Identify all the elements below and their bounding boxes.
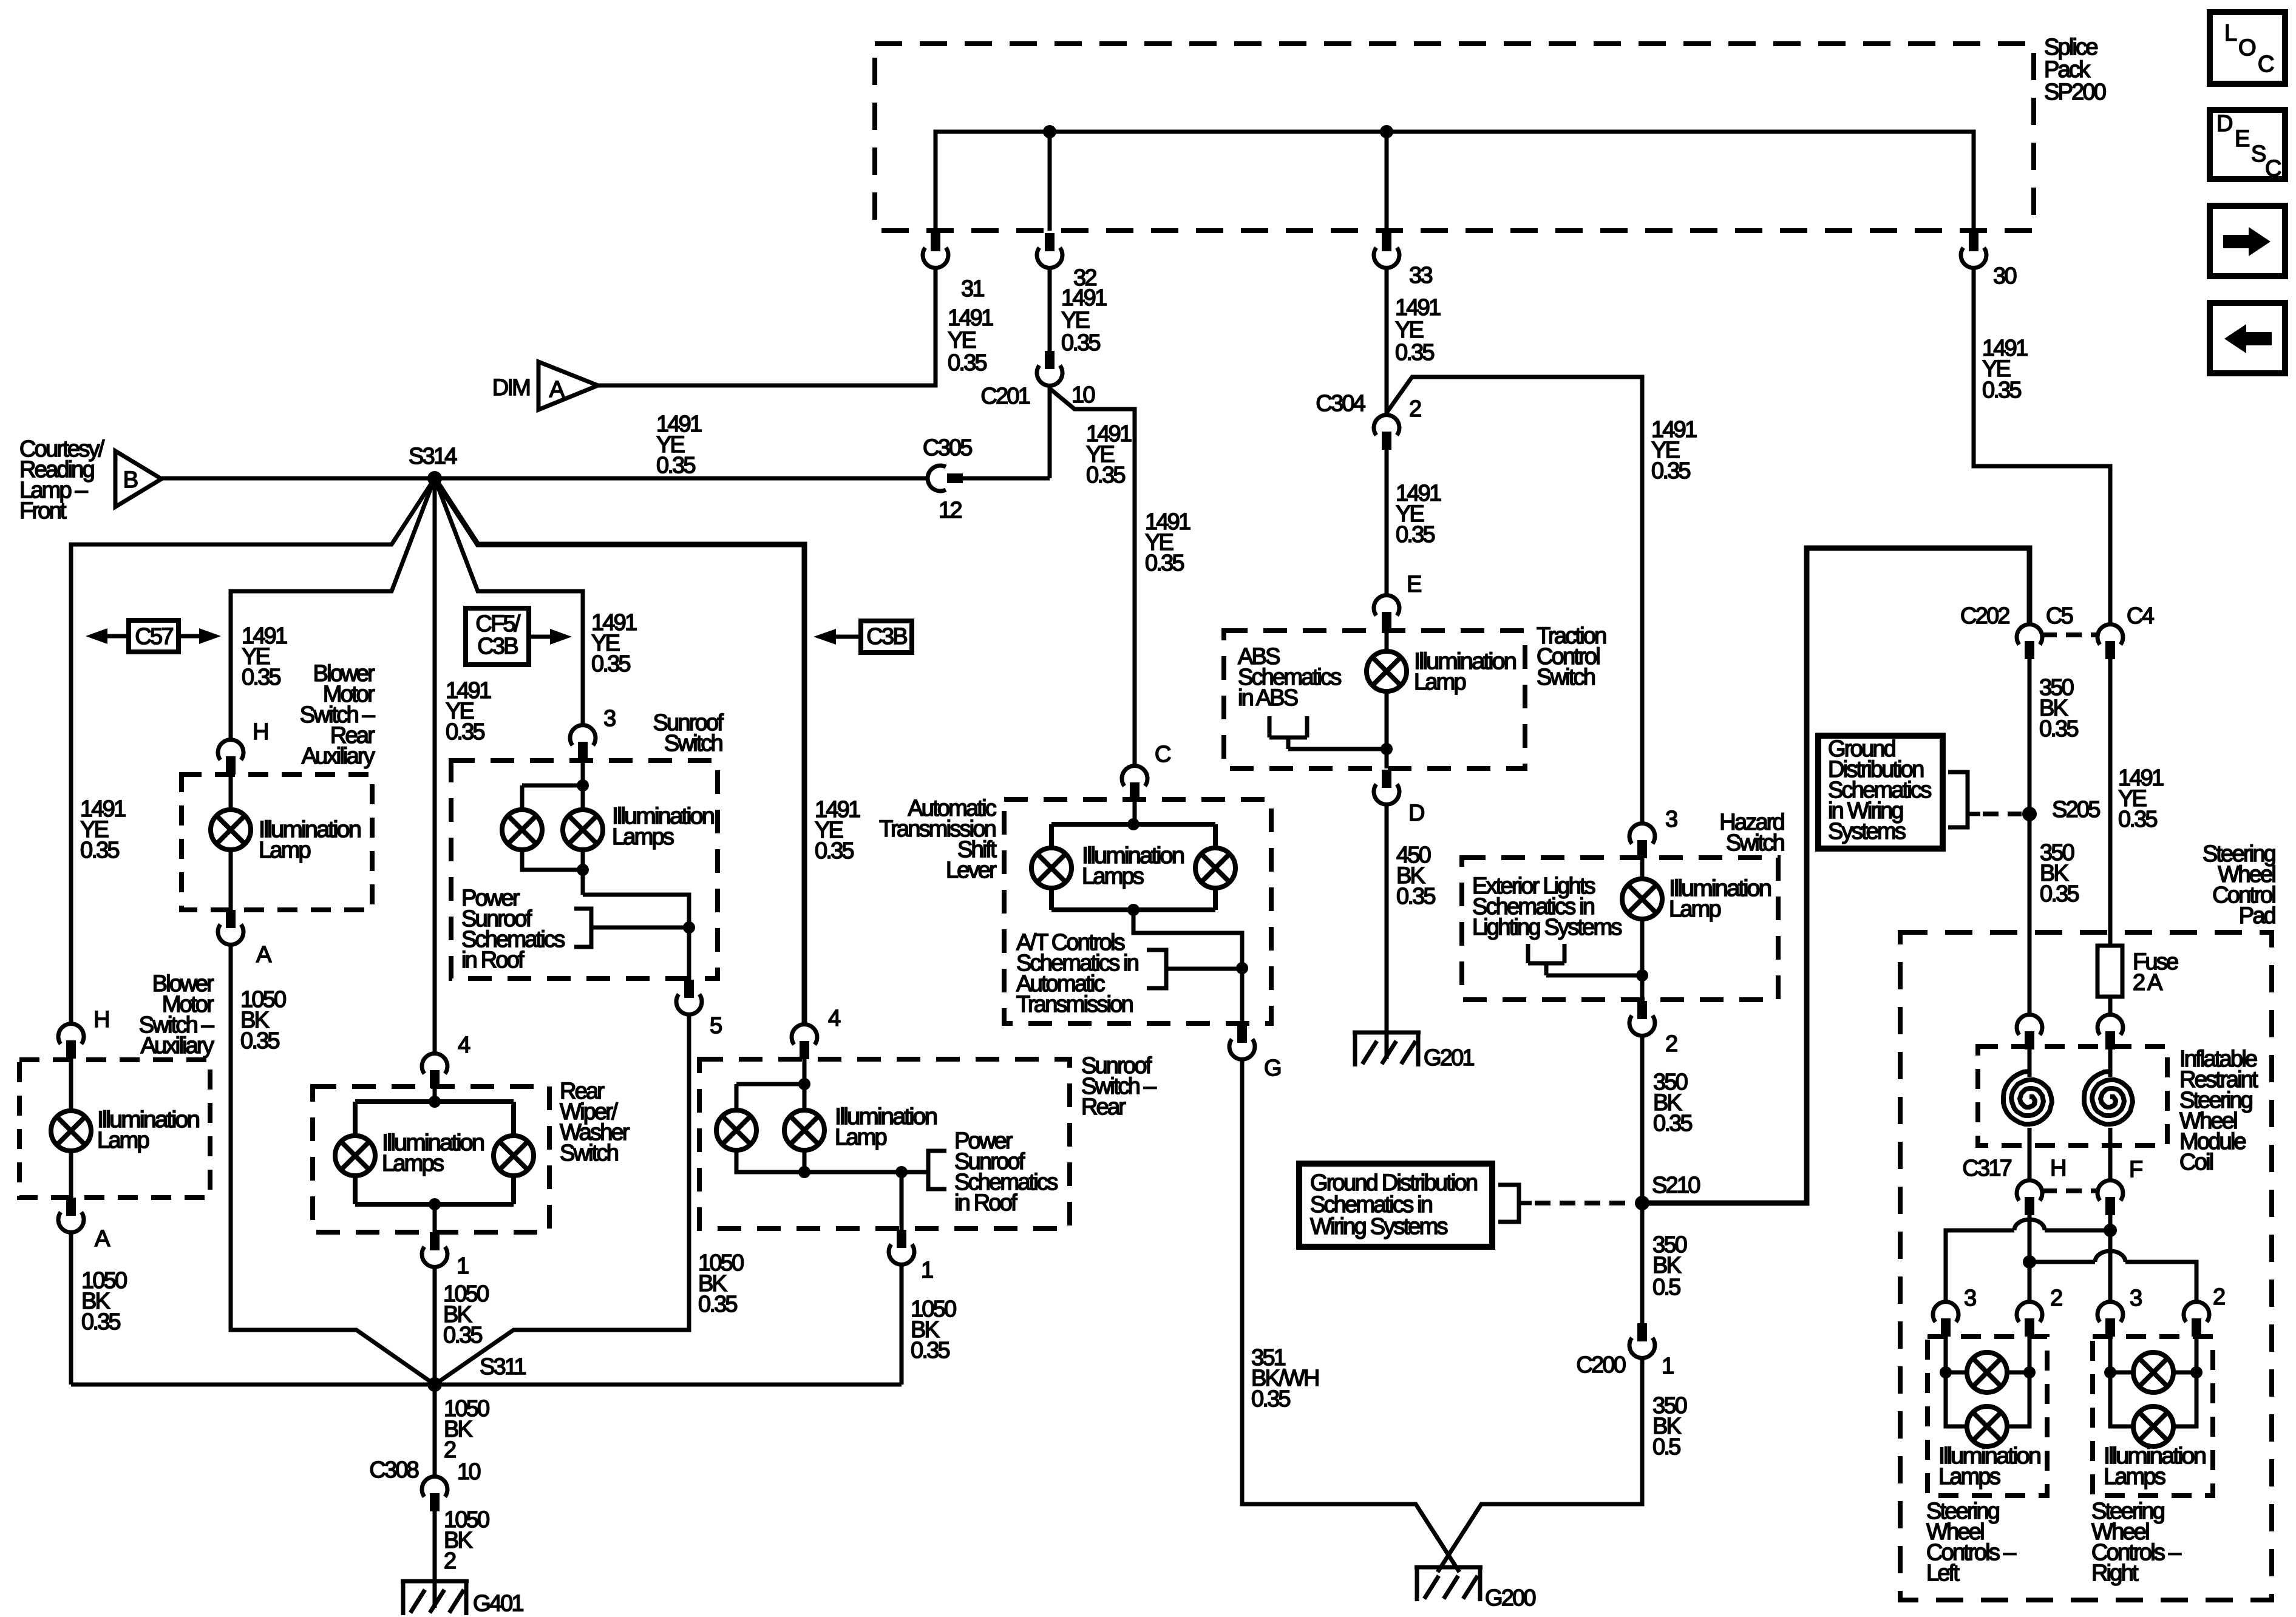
svg-text:C: C [2258, 52, 2274, 77]
wire: pin 3 into lamps [581, 760, 585, 810]
wire: lamp down to D [1385, 691, 1389, 768]
svg-text:Lamps: Lamps [612, 824, 674, 850]
svg-text:Rear: Rear [1081, 1094, 1126, 1120]
illumination lamp right [563, 810, 603, 850]
wire: C5 down through S205 into steering pad [2028, 659, 2032, 1015]
wire: splice bus [936, 132, 1974, 231]
coil left (SWC module) [2003, 1071, 2052, 1124]
svg-text:YE: YE [948, 328, 976, 353]
wire: bus1 pin3-left with hop over H [1946, 1230, 2111, 1302]
wire: G down to G200 [1242, 1059, 1459, 1572]
svg-text:0.35: 0.35 [2118, 807, 2157, 832]
illumination lamp (rear aux) [211, 810, 251, 850]
svg-text:0.35: 0.35 [443, 1323, 482, 1348]
svg-text:Lamps: Lamps [1938, 1464, 2000, 1490]
callout bracket ground distribution right [1948, 772, 1980, 827]
wire: H into lamp [69, 1059, 73, 1111]
connector pin 33 [1374, 233, 1399, 268]
svg-text:C200: C200 [1576, 1352, 1625, 1378]
wire: lamp bus top [522, 785, 583, 810]
svg-text:2: 2 [444, 1548, 456, 1574]
wire: lamp bus top [736, 1084, 804, 1110]
wire: C200 down to G200 [1438, 1358, 1642, 1572]
sunroof switch dashed box [451, 761, 718, 978]
svg-text:C202: C202 [1960, 603, 2009, 629]
svg-text:Pack: Pack [2044, 57, 2091, 83]
lamp loop box (rear wiper) [355, 1102, 514, 1204]
svg-text:Lamp: Lamp [97, 1128, 149, 1153]
svg-text:0.35: 0.35 [1251, 1386, 1290, 1412]
connector 3 (sunroof switch) [570, 725, 596, 760]
junction (exterior lights tap) [1636, 969, 1648, 981]
svg-text:C: C [1155, 742, 1170, 767]
svg-text:0.35: 0.35 [1061, 330, 1100, 356]
A/T shift lever dashed box [1004, 799, 1271, 1023]
junction top [429, 1096, 441, 1108]
splice pack SP200 dashed box [875, 44, 2034, 231]
wire: lamp down to pin 2 [1640, 919, 1645, 1001]
LOC box [2210, 12, 2285, 84]
junction (ABS tap) [1381, 743, 1393, 755]
svg-text:Switch: Switch [664, 731, 722, 756]
coil right (SWC module) [2084, 1071, 2133, 1124]
svg-text:0.35: 0.35 [1145, 551, 1184, 576]
svg-text:0.35: 0.35 [1653, 1111, 1692, 1136]
connector G (shift lever) [1229, 1025, 1255, 1059]
callout bracket Exterior Lights [1528, 944, 1642, 975]
svg-text:O: O [2238, 35, 2255, 61]
wire: B to C305 [161, 476, 929, 481]
svg-text:C304: C304 [1316, 391, 1365, 416]
svg-text:F: F [2129, 1157, 2142, 1182]
svg-text:0.35: 0.35 [2040, 881, 2079, 907]
right rails [2110, 1337, 2196, 1426]
wire hop (bus2 over F wire) [2095, 1251, 2125, 1262]
junction (bracket tap) [683, 921, 695, 934]
SWC right dashed box [2093, 1337, 2213, 1496]
wire: pin 1 down to S311 [433, 1267, 437, 1385]
connector C201 pin 10 [1037, 351, 1062, 385]
svg-text:Switch: Switch [560, 1141, 618, 1166]
aux illumination lamp dashed box [19, 1060, 210, 1198]
dashed link to S205 [1983, 812, 2022, 816]
illumination lamp left (A/T) [1031, 848, 1072, 888]
svg-text:0.35: 0.35 [1395, 340, 1434, 365]
wire: A down to S311 [231, 944, 435, 1385]
C57 box [129, 620, 178, 652]
CF5/C3B box [466, 608, 529, 665]
wire: C304 down to E [1385, 450, 1389, 595]
junction on bus at pin 32 [1043, 125, 1056, 138]
svg-text:1491: 1491 [1395, 295, 1441, 320]
svg-text:Switch: Switch [1537, 665, 1595, 690]
svg-text:1: 1 [457, 1253, 469, 1279]
svg-text:5: 5 [710, 1013, 722, 1039]
svg-text:2: 2 [2213, 1284, 2225, 1310]
splice S314 [427, 471, 442, 486]
connector 2 (hazard) [1629, 1001, 1655, 1036]
junction at pin 1 drop [895, 1166, 908, 1178]
rear wiper dashed box [313, 1086, 549, 1232]
splice S205 [2022, 807, 2037, 821]
svg-text:G201: G201 [1424, 1045, 1474, 1071]
svg-text:Coil: Coil [2179, 1150, 2213, 1175]
DESC box [2210, 110, 2285, 179]
svg-text:C3B: C3B [477, 634, 518, 659]
illumination lamp left [502, 810, 542, 850]
svg-text:Splice: Splice [2044, 35, 2097, 60]
callout bracket ABS [1269, 716, 1387, 749]
svg-text:D: D [1408, 801, 1424, 826]
svg-text:A: A [549, 377, 565, 402]
svg-text:A: A [95, 1226, 110, 1252]
svg-text:in Roof: in Roof [954, 1190, 1017, 1216]
wire hop (bus1 over H wire) [2014, 1219, 2045, 1230]
svg-text:C: C [2265, 156, 2281, 181]
wire: pin 1 down to S311 corner [900, 1264, 904, 1385]
wire: pin 4 into lamps [803, 1059, 807, 1110]
dashed link C5 to C4 [2041, 632, 2099, 637]
wire: ground distribution thick path to S210 [1646, 548, 2029, 1203]
right arrow box [2210, 206, 2285, 276]
svg-text:E: E [1407, 572, 1421, 597]
callout bracket Power Sunroof Schematics in Roof (rear) [902, 1151, 946, 1189]
svg-text:0.5: 0.5 [1652, 1275, 1680, 1300]
hazard/exterior lights dashed box [1462, 858, 1778, 1000]
svg-text:Lamp: Lamp [1414, 670, 1466, 695]
svg-text:1491: 1491 [1061, 285, 1107, 311]
illumination lamp (hazard) [1622, 879, 1662, 919]
illumination lamp (traction) [1367, 651, 1407, 691]
C57 left arrow [107, 634, 129, 639]
svg-text:2: 2 [2050, 1286, 2062, 1311]
illumination lamp 1 (SWC right) [2133, 1352, 2173, 1392]
connector 2 (SWC left) [2017, 1302, 2042, 1337]
connector 4 (rear wiper) [422, 1054, 447, 1088]
inflatable restraint dashed box [1978, 1046, 2167, 1145]
svg-text:S311: S311 [480, 1354, 526, 1380]
connector 5 (sunroof switch) [676, 980, 702, 1014]
junction rail dots left [1940, 1366, 1952, 1378]
illumination lamp right (sunroof rear) [784, 1110, 824, 1150]
ground G401 [401, 1581, 469, 1615]
splice S311 [427, 1377, 442, 1392]
SWC left dashed box [1927, 1337, 2047, 1496]
connector C317 cavity F [2097, 1181, 2123, 1215]
svg-text:DIM: DIM [492, 375, 529, 401]
ground distribution left box [1299, 1164, 1492, 1247]
svg-text:2: 2 [1665, 1031, 1677, 1057]
wire: lamp to A [69, 1151, 73, 1198]
junction bus2 on H wire [2023, 1255, 2036, 1269]
wire: right coil to C317 F [2108, 1128, 2113, 1181]
junction bus1 on F wire [2104, 1224, 2117, 1237]
steering wheel control pad dashed box [1900, 932, 2272, 1600]
svg-text:0.5: 0.5 [1652, 1434, 1680, 1460]
svg-text:Auxiliary: Auxiliary [141, 1033, 214, 1059]
connector (column, right) [2097, 1015, 2123, 1049]
wire: bottom junction to pin 1 [433, 1204, 437, 1232]
connector C202 cavity C5 [2017, 625, 2042, 659]
wire: S314 to blower aux (far left) [71, 478, 435, 1024]
connector H (rear aux) [218, 740, 243, 775]
svg-text:S210: S210 [1652, 1173, 1700, 1198]
wire: C304 branch to hazard switch [1387, 377, 1642, 824]
wire: bus drop pin 33 [1385, 132, 1389, 231]
svg-text:0.35: 0.35 [591, 651, 630, 677]
connector (column, left) [2017, 1015, 2042, 1049]
connector 4 (sunroof rear) [792, 1025, 817, 1059]
svg-text:2: 2 [444, 1437, 456, 1463]
wire: E into lamp [1385, 630, 1389, 651]
svg-text:Wiring Systems: Wiring Systems [1310, 1214, 1448, 1239]
wire: lamp1 taps [1946, 1371, 2029, 1375]
splice S210 [1635, 1196, 1649, 1210]
svg-text:C3B: C3B [866, 624, 907, 649]
illumination lamp left (rear wiper) [335, 1136, 375, 1176]
triangle connector B (Courtesy/Reading Lamp - Front) [115, 451, 161, 507]
illumination lamp 2 (SWC right) [2133, 1406, 2173, 1446]
wire: bus drop pin 32 [1048, 132, 1052, 231]
dashed link H to F [2041, 1188, 2099, 1193]
wire: lamp1 taps [2110, 1371, 2196, 1375]
connector C202 cavity C4 [2097, 625, 2123, 659]
svg-text:10: 10 [457, 1459, 480, 1485]
connector C317 cavity H [2017, 1181, 2042, 1215]
svg-text:3: 3 [1964, 1286, 1976, 1311]
wire: pin 3 into lamp [1640, 858, 1645, 879]
junction rail dots right [2104, 1366, 2116, 1378]
wire: S314 to sunroof switch rear (thick) [435, 478, 804, 1025]
junction bottom [1127, 904, 1140, 916]
connector 3 (hazard) [1629, 824, 1655, 858]
wire: C into lamps [1133, 801, 1137, 824]
svg-text:3: 3 [1665, 807, 1677, 832]
svg-text:0.35: 0.35 [2039, 716, 2078, 742]
svg-text:12: 12 [939, 498, 962, 523]
svg-text:0.35: 0.35 [698, 1292, 737, 1317]
illumination lamp right (rear wiper) [494, 1136, 534, 1176]
svg-text:YE: YE [1395, 317, 1424, 343]
wire: H into lamp [229, 775, 233, 810]
connector 1 (sunroof rear) [889, 1230, 914, 1264]
svg-text:0.35: 0.35 [80, 838, 119, 863]
svg-text:4: 4 [458, 1032, 470, 1058]
fuse 2A [2097, 946, 2122, 997]
left arrow box [2210, 303, 2285, 373]
svg-text:Switch: Switch [1726, 830, 1784, 856]
wire: H wire to pin 2 left [2028, 1262, 2032, 1302]
wire: junction down to pin 1 [900, 1172, 904, 1230]
wire: S314 center down to rear wiper [433, 478, 437, 1054]
connector H (aux) [58, 1024, 84, 1059]
svg-text:Auxiliary: Auxiliary [302, 744, 375, 769]
wire: C308 down to G401 [433, 1511, 437, 1581]
illumination lamp right (A/T) [1195, 848, 1235, 888]
illumination lamp (aux) [51, 1111, 91, 1151]
svg-text:0.35: 0.35 [948, 350, 987, 376]
wire: F wire down [2108, 1215, 2113, 1302]
connector pin 30 [1961, 233, 1986, 268]
wire: pin 31 to DIM triangle [598, 268, 936, 385]
svg-text:33: 33 [1409, 263, 1432, 288]
svg-text:L: L [2224, 21, 2237, 46]
svg-text:H: H [2050, 1156, 2065, 1181]
svg-text:Lamp: Lamp [835, 1125, 887, 1150]
connector 1 (rear wiper) [422, 1232, 447, 1267]
svg-text:Front: Front [19, 498, 67, 524]
svg-text:1491: 1491 [948, 305, 993, 331]
svg-text:3: 3 [2130, 1286, 2142, 1311]
svg-text:0.35: 0.35 [1396, 884, 1435, 909]
rear aux illumination lamp dashed box [182, 775, 372, 910]
left rails [1946, 1337, 2029, 1426]
svg-text:0.35: 0.35 [446, 719, 484, 745]
wire: pin 32 down to C201 [1048, 268, 1052, 351]
svg-text:0.35: 0.35 [1982, 378, 2021, 403]
svg-text:C308: C308 [369, 1457, 418, 1483]
connector 3 (SWC left) [1933, 1302, 1958, 1337]
svg-text:31: 31 [961, 276, 984, 302]
wire: fuse to column connector [2108, 997, 2113, 1015]
sunroof rear dashed box [699, 1059, 1070, 1229]
svg-text:SP200: SP200 [2044, 80, 2106, 105]
svg-text:1: 1 [921, 1258, 933, 1283]
wire: lamp bus bottom [736, 1150, 902, 1172]
svg-text:A: A [256, 942, 272, 968]
svg-text:in Roof: in Roof [461, 947, 525, 973]
svg-text:4: 4 [828, 1006, 841, 1031]
connector C200 pin 1 [1629, 1323, 1655, 1358]
connector C (shift lever) [1122, 766, 1147, 801]
svg-text:Pad: Pad [2239, 903, 2275, 929]
wire: lamp to A [229, 850, 233, 910]
wire: pin 4 into box [433, 1088, 437, 1102]
ground G200 [1415, 1567, 1483, 1601]
wire: C305 to C201 corner [962, 476, 1050, 481]
svg-text:0.35: 0.35 [1396, 522, 1435, 547]
wire: left coil to C317 H [2028, 1128, 2032, 1181]
svg-text:Lamp: Lamp [259, 838, 311, 863]
wire: C201 diagonal branch to shift lever drop [1050, 388, 1135, 766]
svg-text:2 A: 2 A [2133, 970, 2163, 995]
svg-text:G401: G401 [473, 1591, 523, 1616]
wire: S311 bus [71, 1383, 902, 1387]
wire: A down to S311 [69, 1232, 73, 1385]
svg-text:G: G [1264, 1056, 1280, 1081]
svg-text:3: 3 [603, 706, 616, 731]
svg-text:YE: YE [1061, 308, 1090, 333]
wire: C201 down to C305 line [1048, 385, 1052, 478]
svg-text:C57: C57 [135, 624, 173, 649]
C3B left arrow [836, 635, 861, 639]
connector 3 (SWC right) [2097, 1302, 2123, 1337]
svg-text:Lever: Lever [946, 858, 997, 883]
svg-text:Lamps: Lamps [2104, 1464, 2165, 1490]
junction bottom [429, 1198, 441, 1210]
svg-text:Lighting Systems: Lighting Systems [1472, 915, 1622, 940]
svg-text:in ABS: in ABS [1238, 685, 1298, 711]
svg-text:Left: Left [1926, 1561, 1960, 1586]
svg-text:1: 1 [1662, 1354, 1674, 1379]
illumination lamp 2 (SWC left) [1967, 1406, 2007, 1446]
svg-text:30: 30 [1993, 263, 2016, 289]
svg-text:H: H [253, 719, 268, 745]
connector A (aux) [58, 1198, 84, 1232]
svg-text:Right: Right [2091, 1561, 2139, 1586]
junction (A/T bracket tap) [1236, 962, 1248, 974]
connector D (traction control) [1374, 770, 1399, 804]
wire: bus to pin 5 drop [583, 895, 689, 980]
junction top [798, 1078, 810, 1090]
svg-text:0.35: 0.35 [240, 1028, 279, 1054]
wire: D down to G201 [1385, 804, 1389, 1032]
svg-text:E: E [2235, 126, 2249, 152]
svg-text:S: S [2251, 141, 2266, 167]
wire: bottom junction to G drop [1133, 910, 1242, 1023]
svg-text:Lamps: Lamps [382, 1151, 444, 1176]
callout bracket A/T Controls [1147, 950, 1242, 988]
wire: H wire down [2028, 1215, 2032, 1262]
wire: S311 down to C308 [433, 1385, 437, 1477]
svg-text:C4: C4 [2127, 603, 2155, 629]
wire: pin 30 wire down to C4 [1974, 268, 2110, 625]
junction bottom under right lamp [798, 1166, 810, 1178]
wire: into left coil [2028, 1049, 2032, 1077]
svg-text:0.35: 0.35 [1086, 463, 1125, 488]
svg-text:S205: S205 [2052, 797, 2100, 822]
svg-text:C5: C5 [2046, 603, 2073, 629]
C57 right arrow [178, 634, 199, 639]
svg-text:Transmission: Transmission [1016, 992, 1133, 1017]
dashed link to S210 [1535, 1201, 1634, 1205]
connector pin 31 [923, 233, 948, 268]
connector 2 (SWC right) [2184, 1302, 2209, 1337]
svg-text:0.35: 0.35 [656, 453, 695, 478]
svg-text:0.35: 0.35 [1651, 458, 1690, 484]
svg-text:0.35: 0.35 [81, 1309, 120, 1335]
junction top [1127, 818, 1140, 830]
svg-text:H: H [93, 1007, 109, 1032]
svg-text:C317: C317 [1962, 1156, 2011, 1181]
connector C308 pin 10 [422, 1477, 447, 1511]
svg-text:D: D [2216, 111, 2232, 137]
connector A (rear aux) [218, 910, 243, 944]
traction control dashed box [1224, 631, 1525, 768]
svg-text:S314: S314 [409, 444, 457, 469]
svg-text:Systems: Systems [1828, 819, 1906, 844]
wire: S210 down to C200 [1640, 1203, 1645, 1323]
lamp loop box (A/T) [1051, 824, 1215, 910]
illumination lamp 1 (SWC left) [1967, 1352, 2007, 1392]
svg-text:B: B [123, 467, 138, 493]
junction on bus at pin 33 [1380, 125, 1393, 138]
connector C304 pin 2 [1374, 415, 1399, 450]
svg-text:C305: C305 [923, 435, 972, 461]
callout bracket Power Sunroof Schematics in Roof [574, 909, 689, 947]
junction (lamp bus top) [577, 779, 589, 792]
svg-text:CF5/: CF5/ [475, 611, 520, 637]
svg-text:0.35: 0.35 [242, 665, 280, 690]
svg-text:C201: C201 [980, 384, 1030, 409]
CF5/C3B right arrow [529, 635, 550, 639]
wire: pin 2 down to S210 [1640, 1036, 1645, 1203]
connector E (traction control) [1374, 595, 1399, 630]
connector pin 32 [1037, 233, 1062, 268]
svg-text:0.35: 0.35 [815, 838, 854, 864]
svg-text:Lamp: Lamp [1669, 897, 1721, 922]
wire: into right coil [2108, 1049, 2113, 1077]
